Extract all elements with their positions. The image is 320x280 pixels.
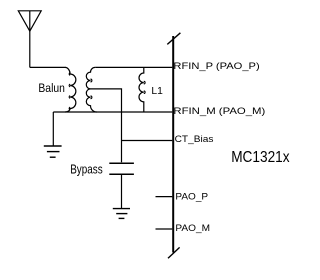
svg-text:CT_Bias: CT_Bias [175,134,214,145]
svg-text:PAO_P: PAO_P [175,191,208,202]
svg-text:Bypass: Bypass [70,162,103,177]
svg-text:MC1321x: MC1321x [231,149,290,166]
svg-text:Balun: Balun [38,81,65,95]
svg-text:L1: L1 [151,86,163,97]
svg-text:PAO_M: PAO_M [175,223,210,234]
svg-text:RFIN_M (PAO_M): RFIN_M (PAO_M) [173,106,265,117]
svg-text:RFIN_P (PAO_P): RFIN_P (PAO_P) [173,61,259,72]
